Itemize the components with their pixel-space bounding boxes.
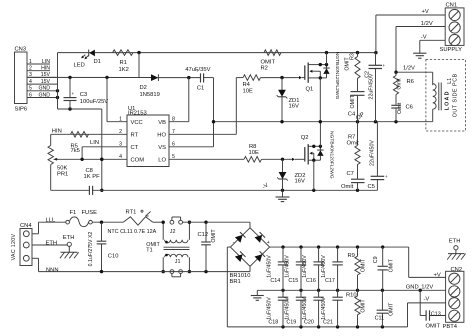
wire: VB pin8 riser <box>188 78 190 122</box>
capacitor C9 OMIT <box>382 247 384 266</box>
svg-text:C10: C10 <box>108 253 119 259</box>
potentiometer PR1 50K <box>50 134 52 145</box>
wire: LO pin5 / Q2 gate row <box>169 158 244 160</box>
svg-text:C11: C11 <box>375 316 385 322</box>
LED D1 <box>88 50 90 57</box>
CN3 pin stubs with numbers and net labels <box>27 63 50 65</box>
svg-text:OMIT: OMIT <box>389 258 395 272</box>
wire: VCC rail (15V) to D2 <box>27 76 151 78</box>
svg-text:100uF/25V: 100uF/25V <box>80 99 108 105</box>
svg-text:1uF/450V: 1uF/450V <box>266 255 272 278</box>
capacitor C10 0.1uF/275V X2 <box>101 222 103 241</box>
junction: CN3 GND pins tie <box>56 89 59 92</box>
svg-text:6: 6 <box>29 92 32 98</box>
wire: GND mid rail <box>257 289 445 291</box>
wire: +V to CN2 <box>409 276 446 278</box>
svg-text:C12: C12 <box>198 232 209 238</box>
wire: HO pin7 to R4 row <box>169 133 236 135</box>
capacitors C14-C17 1uF/450V <box>282 247 284 262</box>
wire: +V rail (bridge output) <box>270 246 409 248</box>
svg-text:1/2V: 1/2V <box>403 66 415 72</box>
capacitor C13 OMIT <box>425 310 427 320</box>
svg-text:RT: RT <box>131 132 139 138</box>
capacitor C1 47uF/35V <box>200 73 202 82</box>
resistor R10 OMIT <box>357 290 359 296</box>
svg-text:1uF/450V: 1uF/450V <box>321 297 327 320</box>
svg-text:VCC: VCC <box>131 120 143 126</box>
wire: LLL line <box>32 233 39 235</box>
resistor R6 Omit <box>393 76 398 95</box>
svg-text:RT1: RT1 <box>126 210 137 216</box>
capacitor C3 100uF/25V <box>69 77 71 97</box>
svg-text:ETH: ETH <box>46 240 58 246</box>
wire: COM pin4 row / PR1 wiper <box>54 158 128 160</box>
svg-text:+V: +V <box>434 273 441 279</box>
wire: VCC pin1 <box>106 77 108 121</box>
resistor R1 5K2 <box>113 50 134 56</box>
svg-text:1uF/450V: 1uF/450V <box>321 255 327 278</box>
svg-text:OMIT: OMIT <box>360 299 366 313</box>
wire: C1 right down to VS/mid-rail node <box>213 78 215 122</box>
svg-text:1/2V: 1/2V <box>421 21 433 27</box>
svg-text:47uF/35V: 47uF/35V <box>185 67 210 73</box>
svg-text:10E: 10E <box>243 88 253 94</box>
wire: Q1 gate row <box>236 77 243 79</box>
ground (power stage -V) <box>282 190 284 197</box>
svg-text:C6: C6 <box>406 105 413 111</box>
svg-text:1uF/450V: 1uF/450V <box>266 297 272 320</box>
svg-text:Q1: Q1 <box>306 86 314 92</box>
wire: R1/R2 node down to D2 anode <box>138 53 140 78</box>
svg-text:+: + <box>72 91 75 96</box>
svg-text:C17: C17 <box>325 278 335 284</box>
svg-text:5: 5 <box>29 86 32 92</box>
transformer T1 OMIT (common-mode choke) <box>162 222 164 240</box>
svg-text:C4: C4 <box>348 111 356 117</box>
svg-text:1K2: 1K2 <box>119 67 129 73</box>
svg-text:NTC CL11 0.7E 12A: NTC CL11 0.7E 12A <box>108 229 157 235</box>
svg-text:OMIT: OMIT <box>388 302 394 316</box>
bridge rectifier BR1 BR1010 <box>230 228 269 266</box>
svg-text:HO: HO <box>157 132 166 138</box>
jumper J2 <box>170 220 174 224</box>
connector CN3 (SIP6) <box>15 52 28 104</box>
ground (CN1 -V) <box>413 52 426 54</box>
wire: +V to CN1 <box>375 15 377 53</box>
svg-text:1uF/450V: 1uF/450V <box>302 255 308 278</box>
wire: RT pin2 row (HIN) <box>51 133 127 135</box>
svg-text:0.1uF/275V X2: 0.1uF/275V X2 <box>88 232 94 267</box>
jumper J1 <box>170 270 174 274</box>
svg-text:OMIT: OMIT <box>261 59 276 65</box>
svg-text:7k5: 7k5 <box>71 148 80 154</box>
transistor Q2 NGTB40N120FL2WG <box>304 147 306 161</box>
capacitor C8 1K PF <box>88 186 90 195</box>
svg-text:LIN: LIN <box>90 140 99 146</box>
svg-text:2: 2 <box>29 66 32 72</box>
capacitor C5 22uF/450V <box>376 122 378 177</box>
capacitor C6 Omit <box>391 104 400 106</box>
svg-text:GND: GND <box>38 86 50 92</box>
svg-text:+V: +V <box>422 9 429 15</box>
svg-text:CN3: CN3 <box>15 47 27 53</box>
svg-text:BR1: BR1 <box>230 279 241 285</box>
svg-text:16V: 16V <box>295 178 305 184</box>
svg-text:SUPPLY: SUPPLY <box>440 47 463 53</box>
svg-text:VS: VS <box>158 145 166 151</box>
svg-text:Omit: Omit <box>397 102 403 114</box>
svg-text:C18: C18 <box>268 319 278 325</box>
fuse F1 <box>66 220 70 224</box>
svg-text:C21: C21 <box>323 319 333 325</box>
resistor R7 Omit <box>357 122 359 146</box>
svg-text:VB: VB <box>158 120 166 126</box>
svg-text:R6: R6 <box>407 79 414 85</box>
svg-text:R3: R3 <box>350 53 356 60</box>
capacitor C4 OMIT <box>351 91 365 93</box>
svg-text:LIN: LIN <box>42 59 50 65</box>
resistor R3 OMIT <box>357 53 359 57</box>
wire: AC neutral rail <box>39 271 251 273</box>
svg-text:CT: CT <box>131 145 139 151</box>
svg-text:LO: LO <box>158 157 166 163</box>
svg-text:COM: COM <box>131 157 145 163</box>
wire: COM/-V bottom rail <box>51 189 90 191</box>
wire: 1/2V net from CN1 to L1 <box>395 27 397 73</box>
resistor R9 OMIT <box>357 247 359 256</box>
earth terminal ETH (input) <box>67 242 71 246</box>
svg-text:ETH: ETH <box>63 235 75 241</box>
wire: -V to CN1 with ground <box>420 39 445 41</box>
zener ZD2 16V <box>282 159 284 190</box>
svg-text:Omit: Omit <box>347 141 360 147</box>
svg-text:Q2: Q2 <box>301 135 309 141</box>
svg-text:1/2V: 1/2V <box>421 285 433 291</box>
wire: ETH line <box>32 244 67 246</box>
svg-text:C1: C1 <box>197 85 204 91</box>
svg-text:LED: LED <box>74 62 85 68</box>
wire: bridge minus to bottom bus <box>227 246 230 248</box>
capacitors C18-C21 1uF/450V <box>282 290 284 297</box>
resistor R5 7k5 <box>71 132 89 138</box>
connector CN4 VAC 120V <box>20 229 32 266</box>
svg-text:C5: C5 <box>368 184 375 190</box>
svg-text:-V: -V <box>424 296 430 302</box>
svg-text:C19: C19 <box>286 319 296 325</box>
svg-text:GND: GND <box>38 92 50 98</box>
op-amp U1 IR2153 body <box>127 115 169 167</box>
svg-text:1uF/450V: 1uF/450V <box>284 255 290 278</box>
wire: -V to CN2 <box>408 302 446 304</box>
svg-text:R10: R10 <box>346 292 357 298</box>
resistor R2 OMIT <box>264 50 281 56</box>
wire: CT pin3 row (LIN) <box>82 146 127 148</box>
svg-text:PBT4: PBT4 <box>443 324 458 330</box>
svg-text:R2: R2 <box>261 66 268 72</box>
svg-text:T1: T1 <box>146 248 152 254</box>
wire: NNN line <box>32 257 39 259</box>
wire: GND rail from CN3 to C3 and down-column <box>58 108 102 110</box>
svg-text:NNN: NNN <box>46 267 59 273</box>
svg-text:LLL: LLL <box>46 218 56 224</box>
wire: AC live to bridge <box>183 221 251 223</box>
svg-text:C3: C3 <box>80 92 87 98</box>
svg-text:CN2: CN2 <box>451 267 463 273</box>
wire: -V bottom rail <box>227 326 407 328</box>
svg-text:OMIT: OMIT <box>360 258 366 272</box>
svg-text:22uF/450V: 22uF/450V <box>368 73 374 99</box>
svg-text:J2: J2 <box>170 229 176 235</box>
wire: D2 cathode to C1 and VS corner <box>158 77 200 79</box>
svg-text:SIP6: SIP6 <box>15 107 28 113</box>
svg-text:-V: -V <box>421 35 427 41</box>
svg-text:C7: C7 <box>347 171 354 177</box>
svg-text:R9: R9 <box>348 253 355 259</box>
svg-text:D2: D2 <box>140 85 147 91</box>
wire: CN3 side vertical (15V up / GND down) <box>57 53 59 109</box>
svg-text:GND: GND <box>406 285 419 291</box>
resistor R4 10E <box>243 75 261 81</box>
svg-text:ETH: ETH <box>449 239 461 245</box>
svg-text:C14: C14 <box>270 278 280 284</box>
diode D2 1N5819 <box>151 74 158 81</box>
wire: 1/2V to CN1 <box>396 26 445 28</box>
svg-text:PR1: PR1 <box>57 171 68 177</box>
load side PCB dashed box <box>426 60 466 131</box>
svg-text:1N5819: 1N5819 <box>140 92 160 98</box>
svg-text:HIN: HIN <box>41 66 50 72</box>
svg-text:+: + <box>385 174 388 179</box>
thermistor RT1 NTC <box>123 217 153 225</box>
svg-text:J1: J1 <box>175 259 181 265</box>
svg-text:1uF/450V: 1uF/450V <box>284 297 290 320</box>
capacitor C11 OMIT <box>381 290 383 310</box>
svg-text:1uF/450V: 1uF/450V <box>302 297 308 320</box>
svg-text:OMIT: OMIT <box>350 94 356 108</box>
svg-text:FUSE: FUSE <box>82 210 98 216</box>
svg-text:16V: 16V <box>289 104 299 110</box>
wire: VS pin6 riser <box>169 146 214 148</box>
svg-text:F1: F1 <box>70 210 77 216</box>
connector CN2 PBT4 <box>446 271 464 322</box>
svg-text:8: 8 <box>172 116 175 122</box>
svg-text:CN4: CN4 <box>20 223 32 229</box>
svg-text:C15: C15 <box>288 278 298 284</box>
transistor Q1 NGTB40N120FL2WG <box>304 65 306 79</box>
svg-text:4: 4 <box>29 79 32 85</box>
capacitor C2 22uF/450V <box>375 53 377 66</box>
svg-text:LOAD: LOAD <box>444 90 450 110</box>
wire: half-bridge mid rail OP <box>214 121 433 123</box>
svg-text:Omit: Omit <box>341 184 354 190</box>
svg-text:1: 1 <box>29 59 32 65</box>
svg-text:C20: C20 <box>304 319 314 325</box>
connector CN1 SUPPLY <box>445 8 464 46</box>
svg-text:D1: D1 <box>94 59 101 65</box>
inductor L1 (isolation transformer) <box>432 109 434 122</box>
svg-text:NGTB40N120FL2WG: NGTB40N120FL2WG <box>334 52 340 100</box>
svg-text:22uF/450V: 22uF/450V <box>370 140 376 166</box>
svg-text:C13: C13 <box>431 311 441 317</box>
svg-text:C16: C16 <box>306 278 316 284</box>
svg-text:OMIT: OMIT <box>426 324 441 330</box>
svg-text:+: + <box>267 240 270 246</box>
svg-text:CN1: CN1 <box>446 3 458 9</box>
svg-text:10E: 10E <box>249 150 259 156</box>
ground (output mid-point) <box>256 290 258 295</box>
svg-text:+: + <box>383 63 386 68</box>
svg-text:R1: R1 <box>120 60 127 66</box>
capacitor C7 Omit <box>351 178 365 180</box>
svg-text:15V: 15V <box>41 79 51 85</box>
zener ZD1 16V <box>281 78 283 122</box>
svg-text:C9: C9 <box>373 256 379 263</box>
svg-text:R4: R4 <box>243 82 251 88</box>
svg-text:OUT SIDE PCB: OUT SIDE PCB <box>452 73 458 117</box>
svg-text:IR2153: IR2153 <box>128 111 147 117</box>
wire: fuse to NTC to T1 <box>92 221 123 223</box>
svg-text:OMIT: OMIT <box>211 229 217 243</box>
svg-text:VAC 120V: VAC 120V <box>11 233 17 260</box>
svg-text:R7: R7 <box>348 134 355 140</box>
wire: top rail (LED / R1 / R2) <box>58 52 376 54</box>
svg-text:Omit: Omit <box>397 78 403 90</box>
svg-text:1K PF: 1K PF <box>84 174 101 180</box>
capacitor C12 OMIT <box>205 222 207 242</box>
svg-text:NGTB40N120FL2WG: NGTB40N120FL2WG <box>329 131 335 179</box>
resistor R8 10E <box>244 157 262 163</box>
svg-text:HIN: HIN <box>52 129 62 135</box>
